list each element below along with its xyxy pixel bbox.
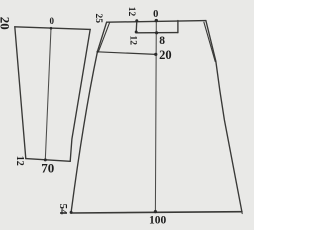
node dot waist rect top-left: [135, 19, 138, 22]
waist rectangle left side: [135, 21, 138, 32]
node dot left panel top centre: [50, 27, 53, 30]
svg-text:0: 0: [50, 16, 55, 26]
svg-text:70: 70: [41, 161, 54, 176]
waist rectangle right side: [177, 21, 179, 33]
right panel upper-right dart line: [204, 22, 215, 61]
svg-text:12: 12: [14, 156, 25, 166]
node dot waist rect bottom-left: [135, 31, 138, 34]
svg-text:54: 54: [57, 204, 69, 216]
right panel lower-left edge: [71, 52, 97, 213]
left panel centre line: [45, 28, 51, 160]
right panel bottom edge: [71, 212, 242, 213]
right edge overshoot tail at bottom-right corner: [241, 212, 243, 214]
right panel upper-left dart line inner: [99, 23, 110, 52]
waist rectangle bottom side: [136, 32, 178, 34]
svg-text:12: 12: [126, 7, 136, 17]
node dot hip line left junction: [97, 51, 99, 53]
paper background: [0, 0, 254, 230]
node dot bottom-left corner (54): [70, 211, 73, 214]
left panel bottom edge: [26, 159, 70, 162]
right panel right edge: [206, 21, 242, 212]
right panel upper-left dart line outer: [97, 22, 106, 51]
right panel centre line: [154, 21, 157, 212]
right panel top edge: [107, 21, 206, 23]
svg-text:100: 100: [149, 214, 167, 226]
right panel hip line: [97, 52, 155, 55]
node dot centre top (0): [155, 19, 158, 22]
left panel top edge: [15, 27, 90, 30]
node dot centre at hip line (20): [154, 53, 157, 56]
svg-text:12: 12: [127, 35, 137, 45]
node dot centre at rect bottom (8): [155, 31, 158, 34]
svg-text:8: 8: [159, 35, 165, 47]
node dot left panel bottom centre: [44, 158, 47, 161]
svg-text:20: 20: [159, 48, 172, 62]
svg-text:25: 25: [93, 14, 103, 24]
left panel right edge: [70, 29, 90, 161]
left panel left edge: [15, 27, 26, 159]
svg-text:0: 0: [153, 9, 158, 20]
svg-text:20: 20: [0, 17, 12, 30]
node dot bottom centre (100): [154, 210, 157, 213]
